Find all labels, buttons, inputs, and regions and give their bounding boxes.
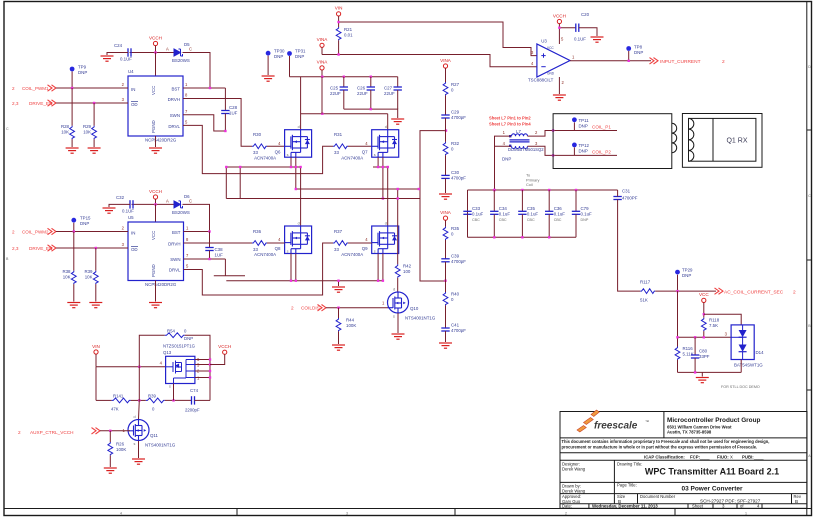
IC U5 NCP5420DR2G: [122, 215, 189, 287]
junction coil box P1: [552, 129, 554, 131]
svg-text:R42: R42: [403, 264, 412, 269]
svg-text:R37: R37: [334, 229, 343, 234]
svg-text:____: ____: [753, 454, 764, 459]
wire C79 bottom stem: [575, 214, 577, 237]
junction DRIVE_EN/R29: [93, 102, 95, 104]
wire C79 top stem: [575, 190, 577, 211]
wire Q13 pin6: [195, 359, 210, 361]
junction L7 pin1 railB: [493, 189, 495, 191]
receiver box Q1 RX: [682, 114, 762, 168]
svg-text:BAT54SWT1G: BAT54SWT1G: [734, 363, 763, 368]
wire TP12 stem: [573, 147, 575, 155]
junction R42 railB: [397, 188, 399, 190]
svg-text:0.1uF: 0.1uF: [499, 212, 511, 217]
wire R42 feed: [397, 189, 399, 264]
svg-text:22UF: 22UF: [357, 91, 368, 96]
svg-text:____: ____: [699, 454, 710, 459]
svg-text:0.1uF: 0.1uF: [581, 212, 593, 217]
wire R38 stem: [73, 232, 75, 271]
svg-text:VINA: VINA: [440, 58, 452, 63]
svg-text:2: 2: [722, 59, 725, 65]
wire SWN2 drop: [224, 259, 226, 276]
wire phase rail A right: [373, 166, 389, 168]
junction Q8 drain railA: [299, 166, 301, 168]
ground U5 PGND: [149, 303, 162, 308]
wire DRIVE_EN to OD: [56, 102, 128, 104]
svg-text:VCCH: VCCH: [553, 13, 566, 18]
junction C38/SWN2: [208, 258, 210, 260]
svg-text:BS20WS: BS20WS: [172, 58, 190, 63]
title block drawn by row: [562, 483, 743, 494]
svg-text:Coil: Coil: [526, 182, 533, 187]
junction TP29 node: [676, 290, 678, 292]
svg-text:Q11: Q11: [150, 433, 159, 438]
junction output TP8: [628, 60, 630, 62]
svg-text:TP29: TP29: [682, 268, 693, 273]
wire VCCH stem opamp: [558, 24, 560, 28]
capacitor C20: [576, 12, 590, 32]
junction bottom C36: [548, 236, 550, 238]
svg-text:R28: R28: [61, 124, 70, 129]
svg-text:47K: 47K: [111, 407, 119, 412]
ground U4 PGND: [149, 148, 162, 153]
svg-text:SCH-27927 PDF: SPF-27927: SCH-27927 PDF: SPF-27927: [700, 499, 761, 504]
svg-text:Q9: Q9: [362, 246, 368, 251]
capacitor C74: [190, 388, 199, 405]
svg-text:TP8: TP8: [634, 45, 643, 50]
wire chain tap column: [420, 131, 446, 281]
svg-text:03 Power Converter: 03 Power Converter: [681, 486, 743, 493]
svg-text:TP12: TP12: [579, 143, 590, 148]
capacitor C80: [691, 349, 710, 360]
capacitor C25: [330, 86, 348, 97]
wire chain1 e: [445, 178, 447, 193]
wire VINA drain rail: [301, 113, 388, 115]
wire TP29 stem: [677, 275, 679, 291]
junction Q7 s2: [382, 166, 384, 168]
svg-text:C34: C34: [499, 206, 508, 211]
svg-text:DNP: DNP: [295, 54, 304, 59]
wire chain2 d: [445, 281, 447, 292]
test point TP12: [572, 143, 590, 154]
junction VCC branch: [703, 313, 705, 315]
power port VCCH U5: [149, 189, 162, 199]
ground Q11: [132, 459, 145, 464]
svg-text:Wednesday, December 11, 2013: Wednesday, December 11, 2013: [592, 504, 658, 509]
svg-text:R39: R39: [84, 269, 93, 274]
svg-text:s: s: [169, 385, 171, 389]
wire D14 bottom: [740, 360, 742, 373]
svg-text:DRVL: DRVL: [168, 124, 180, 129]
off-page connector AUXP_CTRL_VCCH: [18, 428, 100, 435]
wire R44 stem: [338, 308, 340, 318]
wire chain1 b: [445, 95, 447, 115]
power port VINA bulk: [317, 60, 329, 70]
wire C36 bottom stem: [548, 214, 550, 237]
wire TP9 stem: [71, 72, 73, 89]
wire Q13 pin5: [195, 364, 210, 366]
svg-text:DRVH: DRVH: [168, 242, 180, 247]
svg-text:TP30: TP30: [274, 49, 285, 54]
off-page connector INPUT_CURRENT: [650, 58, 726, 65]
capacitor C39: [441, 254, 466, 265]
wire R44 to ground: [338, 331, 340, 344]
wire C25 bottom stem: [343, 90, 345, 109]
svg-text:procurement or manufacture in: procurement or manufacture in whole or i…: [562, 445, 758, 450]
svg-text:FOR STLL DOC DEMO: FOR STLL DOC DEMO: [721, 385, 760, 389]
resistor R26: [108, 442, 126, 456]
junction VINA rail: [321, 76, 323, 78]
svg-text:d: d: [385, 222, 387, 226]
junction pin6: [209, 358, 211, 360]
svg-text:C20: C20: [581, 12, 590, 17]
wire Q10 source: [397, 313, 399, 333]
junction R44 tap: [337, 307, 339, 309]
capacitor C24: [114, 43, 131, 57]
note to primary coil: [526, 173, 539, 188]
resistor R35: [443, 226, 460, 240]
power port VCCH aux: [218, 344, 231, 354]
svg-text:C35: C35: [527, 206, 536, 211]
ground sense: [696, 378, 709, 383]
wire C31 top stem: [617, 190, 619, 197]
svg-text:TP11: TP11: [579, 118, 590, 123]
wire phase rail A left: [226, 166, 301, 168]
junction pin2: [209, 370, 211, 372]
wire BST2 to C38: [209, 232, 211, 248]
ground R28: [66, 148, 79, 153]
svg-text:DNP: DNP: [502, 156, 511, 161]
junction Q8 s2: [295, 280, 297, 282]
junction railA/linkA: [225, 166, 227, 168]
svg-text:10K: 10K: [85, 275, 93, 280]
svg-text:2: 2: [793, 289, 796, 295]
svg-text:DNP: DNP: [682, 273, 691, 278]
wire coil rail C: [226, 198, 419, 200]
wire R117 to TP29 node: [655, 290, 716, 292]
svg-text:s: s: [287, 250, 289, 254]
junction C26 bottom: [370, 108, 372, 110]
junction chain C29/R32: [445, 129, 447, 131]
wire R26 stem: [109, 431, 111, 442]
svg-text:R31: R31: [334, 132, 343, 137]
svg-text:IN: IN: [131, 231, 135, 236]
diode D6 BS20WS: [166, 194, 192, 215]
svg-text:TP15: TP15: [80, 216, 91, 221]
wire mid node row: [678, 336, 732, 338]
svg-text:DRVH: DRVH: [168, 97, 180, 102]
junction C80 top: [694, 336, 696, 338]
svg-text:Sheet L7 Pin1 to Pin2: Sheet L7 Pin1 to Pin2: [489, 116, 531, 121]
transistor Q7 AON7400A: [341, 125, 399, 160]
capacitor C79: [572, 206, 592, 222]
svg-text:CBC: CBC: [554, 218, 562, 222]
primary coil box: [553, 114, 677, 169]
wire VINA stem: [321, 47, 323, 54]
svg-text:VCCH: VCCH: [149, 35, 162, 40]
svg-text:COIL_P2: COIL_P2: [592, 149, 611, 154]
svg-text:1UF: 1UF: [229, 111, 238, 116]
svg-text:DNP: DNP: [78, 70, 87, 75]
junction Q9 s1: [377, 280, 379, 282]
svg-text:VCCH: VCCH: [218, 344, 231, 349]
wire TP15 stem: [73, 223, 75, 232]
capacitor C31: [613, 189, 637, 201]
ground C24: [101, 56, 114, 61]
svg-text:R116: R116: [683, 346, 694, 351]
svg-text:Microcontroller Product Group: Microcontroller Product Group: [667, 417, 760, 424]
wire R26 to ground: [109, 455, 111, 467]
svg-text:7.5K: 7.5K: [709, 323, 718, 328]
label C74 value: [185, 408, 200, 413]
svg-text:CBC: CBC: [499, 218, 507, 222]
svg-text:VCC: VCC: [151, 86, 156, 95]
svg-text:COIL_PWM2: COIL_PWM2: [22, 230, 49, 235]
svg-text:C: C: [6, 127, 9, 131]
test point TP31: [287, 49, 306, 60]
svg-text:TP9: TP9: [78, 65, 87, 70]
svg-text:AC_COIL_CURRENT_SEC: AC_COIL_CURRENT_SEC: [724, 289, 784, 295]
ground cap bank: [391, 119, 404, 124]
svg-text:C: C: [189, 47, 192, 52]
wire VCCH aux stem: [210, 354, 225, 364]
svg-text:Q10: Q10: [410, 306, 419, 311]
junction railB C79: [575, 189, 577, 191]
junction Q9 s2: [382, 280, 384, 282]
wire Q9 source stems: [377, 254, 379, 281]
svg-text:4700pF: 4700pF: [451, 176, 466, 181]
wire Q6 source stems: [290, 157, 292, 167]
svg-text:U5: U5: [128, 215, 134, 220]
svg-text:C24: C24: [114, 43, 123, 48]
resistor R36: [252, 229, 267, 252]
junction Q13 source node: [172, 399, 174, 401]
svg-text:R35: R35: [451, 226, 460, 231]
svg-text:TSC888CILT: TSC888CILT: [528, 78, 554, 83]
ground op-amp: [553, 95, 566, 100]
wire C36 top stem: [548, 190, 550, 211]
svg-text:R32: R32: [451, 141, 460, 146]
svg-text:DNP: DNP: [579, 149, 588, 154]
svg-text:0.01: 0.01: [344, 33, 353, 38]
svg-text:s: s: [374, 153, 376, 157]
title block classification row: [644, 454, 764, 459]
wire R29 to ground: [93, 139, 95, 147]
svg-text:R38: R38: [62, 269, 71, 274]
wire railA to railC link b: [239, 167, 241, 199]
wire cap row bottom rail: [468, 236, 577, 238]
svg-text:Drawing Title:: Drawing Title:: [617, 462, 642, 467]
wire D5 cathode to BST: [183, 53, 211, 89]
wire R42 to Q10 drain: [397, 278, 399, 292]
label C24 value: [120, 57, 132, 62]
junction railA/linkB: [239, 166, 241, 168]
svg-text:R27: R27: [451, 82, 460, 87]
svg-text:SWN: SWN: [170, 113, 180, 118]
wire Q8 source stem b: [295, 254, 297, 281]
wire coil rail B: [296, 188, 419, 190]
svg-text:33: 33: [253, 247, 258, 252]
junction Q7 s1: [377, 166, 379, 168]
svg-text:s: s: [393, 315, 395, 319]
svg-text:U3: U3: [541, 39, 547, 44]
wire SWN2: [184, 258, 226, 260]
wire DRVL2: [184, 243, 334, 295]
ground R38: [67, 303, 80, 308]
power port VCC: [699, 292, 709, 302]
label C32 value: [122, 208, 134, 213]
wire VIN to op-amp plus input: [339, 22, 537, 56]
junction pin5: [209, 363, 211, 365]
resistor R37: [333, 229, 348, 252]
svg-text:ACN7400A: ACN7400A: [341, 252, 363, 257]
svg-text:VCC: VCC: [547, 46, 554, 50]
svg-text:VCCH: VCCH: [149, 189, 162, 194]
wire R41 to R39b: [131, 399, 146, 401]
wire Q9 drain stem: [387, 167, 389, 226]
wire chain2 f: [445, 331, 447, 342]
junction Q13 gate node: [138, 366, 140, 368]
svg-text:C36: C36: [554, 206, 563, 211]
power port VCCH U4: [149, 35, 162, 45]
wire VCCH stem U4: [155, 46, 157, 53]
wire R30 to Q6 gate: [267, 145, 285, 147]
ground C32: [103, 208, 116, 213]
wire C27 bottom stem: [397, 90, 399, 109]
svg-text:d: d: [298, 222, 300, 226]
svg-text:2: 2: [12, 86, 15, 91]
svg-text:FIUO:: FIUO:: [717, 454, 729, 459]
op-amp U3 TSC888CILT: [528, 37, 575, 86]
svg-text:s: s: [374, 250, 376, 254]
svg-text:1UF: 1UF: [215, 253, 224, 258]
svg-text:NCP5420DR2G: NCP5420DR2G: [145, 138, 177, 143]
svg-text:C38: C38: [215, 247, 224, 252]
wire VCC rail U4: [130, 52, 175, 54]
svg-text:B: B: [795, 499, 798, 504]
svg-text:IN: IN: [131, 87, 135, 92]
junction C25 top: [343, 76, 345, 78]
svg-text:U4: U4: [128, 69, 134, 74]
junction pin1: [209, 376, 211, 378]
capacitor C26: [357, 86, 375, 97]
svg-text:Q13: Q13: [163, 350, 172, 355]
capacitor C38: [205, 247, 223, 258]
wire chain2 c: [445, 262, 447, 281]
wire chain1 d: [445, 155, 447, 175]
svg-text:R118: R118: [709, 318, 720, 323]
wire R29 stem: [93, 103, 95, 126]
svg-text:DNP: DNP: [579, 124, 588, 129]
wire R39b to C74: [165, 399, 192, 401]
svg-text:3: 3: [346, 512, 348, 516]
svg-text:C26: C26: [357, 86, 366, 91]
wire L7 pin2 out: [528, 131, 618, 137]
svg-text:ACN7400A: ACN7400A: [254, 156, 276, 161]
test point TP8: [626, 45, 643, 56]
wire VCCH stem U5: [155, 199, 157, 204]
wire C34 top stem: [493, 190, 495, 211]
wire Q13 source stem: [173, 384, 175, 401]
title block frame: [560, 412, 807, 509]
junction Q6 s2: [295, 166, 297, 168]
junction railB C36: [548, 189, 550, 191]
transistor Q11 NTS4001NT1G: [123, 415, 176, 448]
svg-text:Q6: Q6: [275, 150, 281, 155]
wire VINA drain drop: [300, 77, 302, 130]
resistor R44: [336, 318, 356, 332]
svg-text:DNP: DNP: [274, 54, 283, 59]
wire chain1 c: [445, 118, 447, 142]
svg-text:R141: R141: [113, 394, 124, 399]
svg-text:4: 4: [120, 512, 122, 516]
svg-text:Derek Wang: Derek Wang: [562, 489, 586, 494]
wire R37 to Q9 gate: [348, 242, 372, 244]
svg-text:2200pF: 2200pF: [185, 408, 200, 413]
resistor R54 0 DNP: [165, 329, 193, 342]
svg-text:22UF: 22UF: [384, 91, 395, 96]
wire L7 pin1 feed: [495, 136, 512, 190]
svg-text:d: d: [134, 415, 136, 419]
transistor Q13 NTZS0151PT1G: [160, 344, 200, 389]
power port VINA chain1: [440, 58, 452, 68]
wire chain2 a: [445, 220, 447, 226]
svg-text:GND: GND: [547, 72, 555, 76]
wire cap row left drop: [467, 190, 469, 237]
svg-text:2: 2: [18, 430, 21, 435]
svg-text:Date:: Date:: [562, 504, 572, 509]
svg-text:DNP: DNP: [184, 336, 193, 341]
junction R118 mid: [703, 336, 705, 338]
svg-text:R29: R29: [83, 124, 92, 129]
svg-text:DNP: DNP: [634, 50, 643, 55]
junction R21 bottom: [337, 53, 339, 55]
svg-text:DLW5BTM501SQ2: DLW5BTM501SQ2: [508, 147, 544, 152]
junction VIN/R21: [337, 21, 339, 23]
svg-text:NCP5420DR2G: NCP5420DR2G: [145, 282, 177, 287]
junction Q7 stem railC: [382, 197, 384, 199]
wire VIN to Q13 gate: [96, 366, 166, 368]
wire VCC rail U5: [132, 203, 175, 205]
capacitor C27: [384, 86, 402, 97]
wire C31 bottom to R117: [618, 200, 641, 292]
wire chain2 b: [445, 240, 447, 259]
junction VCCH/C32: [154, 203, 156, 205]
svg-text:33: 33: [334, 150, 339, 155]
wire bottom rail sense: [678, 371, 742, 373]
svg-text:NTS4001NT1G: NTS4001NT1G: [405, 316, 436, 321]
power port VIN aux: [92, 344, 100, 354]
junction TP9/PWM1: [71, 87, 73, 89]
power port VIN: [335, 6, 343, 16]
freescale logo: [577, 410, 649, 432]
wire COILDIS to gate: [326, 307, 388, 309]
wire Q7 drain stem: [387, 114, 389, 130]
junction C26 top: [370, 76, 372, 78]
title block date row: [562, 504, 760, 509]
svg-text:COILDIS: COILDIS: [301, 306, 320, 311]
svg-text:VINA: VINA: [317, 37, 329, 42]
junction chain2 bottom: [444, 280, 446, 282]
svg-text:10K: 10K: [61, 130, 69, 135]
svg-text:4700pF: 4700pF: [451, 328, 466, 333]
wire R54 to rail: [185, 335, 210, 400]
svg-text:R117: R117: [640, 280, 651, 285]
resistor R28: [61, 124, 75, 139]
svg-text:2: 2: [12, 230, 15, 235]
junction railB C34: [493, 189, 495, 191]
wire C26 top stem: [370, 77, 372, 87]
